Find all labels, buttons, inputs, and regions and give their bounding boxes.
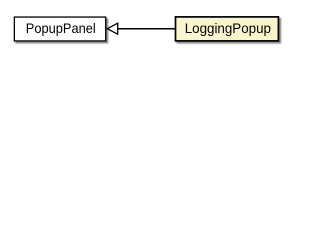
shadow of LoggingPopup box (177, 18, 282, 44)
class box LoggingPopup (176, 17, 279, 41)
wire: inheritance line (118, 28, 176, 30)
label LoggingPopup (185, 20, 272, 36)
label PopupPanel (26, 20, 96, 36)
svg-text:LoggingPopup: LoggingPopup (185, 20, 272, 36)
svg-text:PopupPanel: PopupPanel (26, 20, 96, 36)
inheritance arrowhead (hollow triangle) (107, 23, 117, 34)
class box PopupPanel (14, 17, 105, 41)
shadow of PopupPanel box (15, 18, 108, 43)
